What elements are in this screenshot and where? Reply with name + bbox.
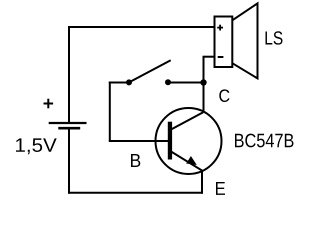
- wire: emitter vertical: [201, 171, 203, 194]
- value label: 1,5V: [16, 138, 57, 154]
- loudspeaker LS: cone: [232, 3, 257, 78]
- wire: collector vertical: [203, 83, 205, 113]
- pin label: B (base): [131, 154, 140, 167]
- battery negative plate: [58, 127, 80, 130]
- wire: collector node up to loudspeaker - terminal: [203, 57, 205, 83]
- switch S (open): left terminal: [126, 79, 132, 85]
- wire: left rail lower (battery - to bottom rail): [68, 128, 70, 194]
- switch S (open): lever arm: [129, 60, 171, 82]
- switch S (open): right terminal: [165, 79, 171, 85]
- part label: BC547B: [235, 134, 294, 148]
- label: battery polarity +: [44, 99, 54, 109]
- wire: base branch vertical: [109, 82, 111, 142]
- transistor Q1 BC547B: body circle: [156, 108, 222, 174]
- loudspeaker LS: + mark: [217, 25, 223, 31]
- wire: base lead horizontal: [109, 140, 168, 142]
- wire: switch right lead to collector node: [168, 82, 204, 84]
- loudspeaker LS: - mark: [218, 56, 224, 58]
- transistor Q1: base bar: [168, 122, 172, 160]
- wire: switch left lead: [109, 82, 129, 84]
- wire: left rail upper (to battery + plate): [68, 26, 70, 123]
- pin label: E (emitter): [216, 182, 225, 195]
- transistor Q1: emitter arrow head: [186, 156, 197, 165]
- label: LS: [266, 31, 283, 44]
- wire: top rail (battery + to loudspeaker +): [68, 26, 215, 28]
- wire: bottom rail (emitter return): [68, 192, 203, 194]
- loudspeaker LS: frame rectangle: [215, 17, 233, 68]
- pin label: C (collector): [219, 89, 229, 102]
- battery positive plate: [49, 122, 87, 124]
- transistor Q1: emitter stroke: [171, 152, 202, 171]
- transistor Q1: collector stroke: [171, 112, 203, 129]
- junction: collector node: [200, 79, 206, 85]
